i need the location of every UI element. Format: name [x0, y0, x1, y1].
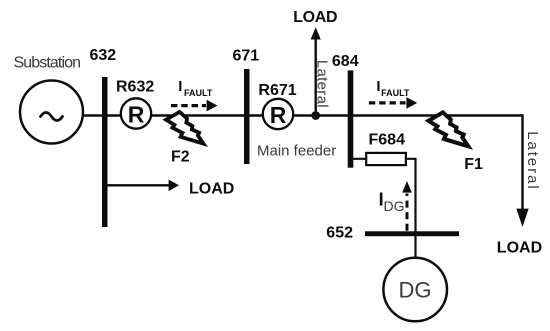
- svg-text:Lateral: Lateral: [314, 60, 331, 108]
- svg-text:DG: DG: [399, 278, 432, 303]
- svg-text:671: 671: [233, 48, 260, 65]
- fault F1 bolt: [428, 112, 468, 146]
- svg-text:FAULT: FAULT: [184, 88, 213, 98]
- relay R671: [263, 99, 293, 129]
- wire main feeder: [83, 114, 523, 116]
- svg-text:Main feeder: Main feeder: [257, 142, 336, 159]
- wire lateral right with arrow: [516, 114, 528, 227]
- svg-text:R: R: [270, 102, 287, 128]
- svg-text:684: 684: [332, 53, 359, 70]
- label I_FAULT right: [376, 78, 410, 98]
- svg-text:R632: R632: [116, 79, 154, 96]
- fault F2 bolt: [166, 112, 203, 144]
- svg-text:LOAD: LOAD: [293, 9, 337, 26]
- svg-text:I: I: [376, 78, 380, 95]
- arrow LOAD left: [105, 180, 179, 191]
- svg-text:F684: F684: [369, 132, 406, 149]
- bus 671: [244, 69, 250, 164]
- label I_FAULT left: [178, 78, 213, 98]
- arrow I_DG (dashed, up): [402, 181, 412, 231]
- svg-text:I: I: [178, 78, 182, 95]
- arrow LOAD top (lateral up): [311, 27, 321, 115]
- svg-text:LOAD: LOAD: [189, 180, 234, 197]
- relay R632: [121, 98, 151, 128]
- svg-text:F1: F1: [464, 156, 483, 173]
- svg-text:632: 632: [90, 47, 117, 64]
- substation generator G1: [20, 81, 83, 144]
- svg-text:FAULT: FAULT: [381, 88, 410, 98]
- arrow I_FAULT left (dashed): [171, 100, 218, 112]
- svg-text:LOAD: LOAD: [497, 240, 542, 257]
- node junction dot: [311, 111, 320, 120]
- svg-text:DG: DG: [384, 198, 405, 214]
- svg-text:Substation: Substation: [14, 55, 81, 72]
- bus 632: [102, 77, 108, 227]
- wire fuse to DG: [406, 159, 416, 258]
- bus 684: [348, 70, 354, 167]
- arrow I_FAULT right (dashed): [369, 97, 417, 109]
- label I_DG: [379, 190, 405, 214]
- wire bus684 to fuse F684: [350, 158, 367, 160]
- svg-text:R: R: [128, 101, 145, 127]
- svg-text:F2: F2: [171, 149, 190, 166]
- DG generator: [383, 258, 447, 322]
- fuse F684: [366, 153, 406, 165]
- svg-text:652: 652: [326, 225, 353, 242]
- bus 652: [365, 231, 459, 236]
- svg-text:R671: R671: [258, 82, 296, 99]
- svg-text:Lateral: Lateral: [524, 131, 541, 191]
